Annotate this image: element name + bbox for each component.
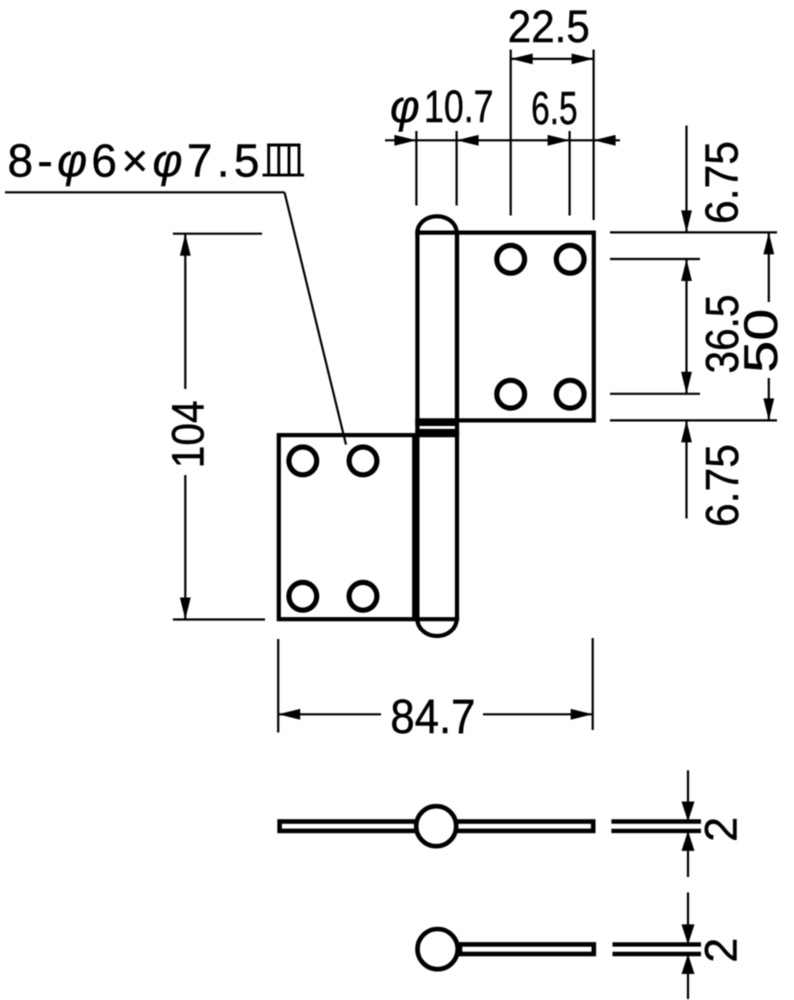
side view 1 knuckle circle <box>416 806 456 846</box>
screw hole upper leaf bottom-right <box>556 380 584 408</box>
dim 2 (view1) line upper tail <box>687 770 689 821</box>
dim 6.5 arrow right (outside pointing left) <box>594 135 616 146</box>
svg-text:2: 2 <box>696 938 747 963</box>
dim phi10.7 arrow left (outside pointing right) <box>394 135 416 146</box>
side view 1 thickness ext line bottom <box>611 829 701 833</box>
pin right edge <box>455 233 459 620</box>
dim 6.75 bottom arrow (pointing up) <box>681 420 692 442</box>
dim 104 extension line bottom <box>173 618 265 620</box>
dim 84.7 extension line right <box>592 638 594 730</box>
dim 84.7 extension line left <box>277 639 279 733</box>
screw hole upper leaf bottom-left <box>497 380 525 408</box>
knuckle junction: upper plate bottom edge across pin <box>415 418 459 422</box>
dim 50 arrow top (pointing up) <box>763 232 774 254</box>
svg-text:6.75: 6.75 <box>696 444 748 527</box>
pin left edge <box>415 233 419 620</box>
dim 22.5 extension line left <box>510 50 512 216</box>
dim phi10.7 extension line right <box>456 131 458 206</box>
screw hole lower leaf top-right <box>349 447 377 475</box>
dim 36.5 line <box>685 259 687 394</box>
dim 104 arrow top <box>180 234 191 256</box>
pin top neck line <box>415 231 459 235</box>
screw hole lower leaf bottom-right <box>349 582 377 610</box>
countersink symbol vertical bars <box>267 144 270 176</box>
screw hole lower leaf bottom-left <box>289 582 317 610</box>
dim 6.5 extension line left <box>568 131 570 216</box>
side view 2 thickness ext line top <box>613 942 702 946</box>
screw hole upper leaf top-left <box>497 245 525 273</box>
side view 1 thickness ext line top <box>611 819 701 823</box>
ext line hole row 1 (right) <box>610 258 700 260</box>
svg-text:6.75: 6.75 <box>695 141 747 224</box>
countersink symbol bottom bar <box>263 174 305 177</box>
dim 2 (view2) line upper tail <box>687 892 689 944</box>
svg-text:104: 104 <box>163 400 214 468</box>
dim 6.75 top line <box>685 126 687 233</box>
dim 104 line lower segment <box>184 475 186 620</box>
dim 104 extension line top <box>173 233 262 235</box>
knuckle junction lower break line <box>415 429 459 433</box>
screw hole upper leaf top-right <box>556 245 584 273</box>
dim phi10.7 arrow right (outside pointing left) <box>457 135 479 146</box>
dim 22.5 line <box>511 58 594 60</box>
dim 50 arrow bottom (pointing down) <box>763 398 774 420</box>
svg-text:φ: φ <box>390 81 420 132</box>
upper leaf plate <box>457 233 594 421</box>
dim 2 (view1) arrow up <box>682 831 695 851</box>
dim 84.7 line right segment <box>483 713 593 715</box>
svg-text:6.5: 6.5 <box>531 82 578 134</box>
countersink symbol top bar <box>267 144 300 147</box>
dim 2 (view2) arrow up <box>682 954 695 974</box>
ext line hole row 2 (right) <box>610 393 700 395</box>
knuckle junction: lower plate top edge across pin <box>415 433 459 437</box>
dim 2 (view1) line lower tail <box>687 831 689 877</box>
dim 84.7 arrow left <box>278 709 300 720</box>
ext line plate top (right) <box>610 231 777 233</box>
dim 22.5 extension line right <box>592 50 594 221</box>
dim phi10.7 extension line left <box>415 131 417 206</box>
dim 36.5 arrow bottom (pointing down) <box>681 372 692 394</box>
svg-text:10.7: 10.7 <box>424 81 494 132</box>
svg-text:50: 50 <box>734 309 787 373</box>
side view 2 knuckle circle <box>418 929 458 969</box>
pin bottom neck line <box>414 617 459 621</box>
dim 104 line upper segment <box>184 234 186 389</box>
pin top dome <box>417 216 456 232</box>
svg-text:84.7: 84.7 <box>390 691 475 744</box>
knuckle junction upper break line <box>415 422 459 426</box>
ext line plate bottom (right) <box>610 419 777 421</box>
dim 50 line lower segment <box>768 378 770 420</box>
dim 36.5 arrow top (pointing up) <box>681 259 692 281</box>
lower leaf plate <box>279 435 414 619</box>
svg-text:22.5: 22.5 <box>508 1 590 52</box>
dim 50 line upper segment <box>768 232 770 302</box>
svg-text:2: 2 <box>696 817 747 842</box>
leader diagonal line <box>285 192 347 444</box>
dim 22.5 arrow right <box>572 54 594 65</box>
dim phi10.7 line with tails <box>385 139 620 141</box>
screw hole lower leaf top-left <box>289 447 317 475</box>
dim 6.75 bottom line <box>685 420 687 518</box>
dim 84.7 line left segment <box>278 713 381 715</box>
pin bottom cap <box>417 619 456 636</box>
dim 104 arrow bottom <box>180 598 191 620</box>
dim 2 (view2) line lower tail <box>687 954 689 999</box>
dim 22.5 arrow left <box>511 54 533 65</box>
dim 2 (view2) arrow down <box>682 924 695 944</box>
dim 84.7 arrow right <box>571 709 593 720</box>
side view 2 leaf bar <box>460 944 594 954</box>
svg-text:8-φ6×φ7.5: 8-φ6×φ7.5 <box>8 135 260 187</box>
leader underline <box>5 191 285 193</box>
dim 6.75 top arrow (pointing down) <box>681 210 692 232</box>
side view 2 thickness ext line bottom <box>613 952 702 956</box>
dim 6.5 arrow left (outside pointing right) <box>548 135 570 146</box>
side view 1 leaf bar <box>280 822 594 831</box>
dim 2 (view1) arrow down <box>682 802 695 822</box>
